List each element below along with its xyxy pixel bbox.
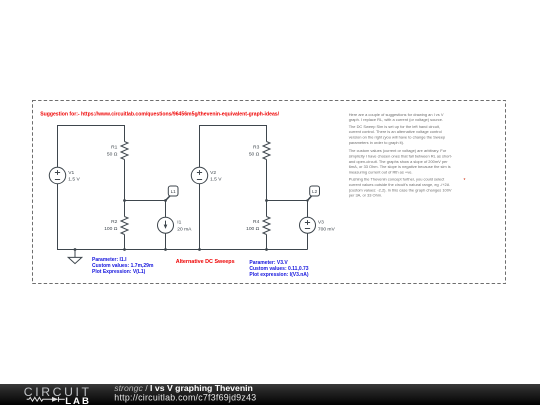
svg-text:current control. There is an a: current control. There is an alternative… [349,129,442,134]
svg-text:*: * [464,178,466,184]
svg-text:version on the right (you will: version on the right (you will have to c… [349,135,446,140]
svg-text:20 mA: 20 mA [177,226,192,232]
svg-text:R4: R4 [253,219,260,225]
svg-text:R2: R2 [111,219,118,225]
svg-text:parameters in order to graph i: parameters in order to graph it). [349,140,404,145]
svg-text:1.5 V: 1.5 V [210,177,222,183]
svg-text:Parameter: V3.V: Parameter: V3.V [249,260,288,266]
svg-text:per 3A, or 33 Ohm.: per 3A, or 33 Ohm. [349,193,382,198]
svg-text:L1: L1 [171,189,177,194]
svg-text:V2: V2 [210,170,216,176]
svg-text:(custom values: -2,2). In this: (custom values: -2,2). In this case the … [349,187,452,192]
svg-text:100 Ω: 100 Ω [246,226,260,232]
svg-text:R3: R3 [253,145,260,151]
svg-text:Suggestion for:- https://www.c: Suggestion for:- https://www.circuitlab.… [40,111,279,117]
svg-text:Pushing the Thevenin concept f: Pushing the Thevenin concept further, yo… [349,177,445,182]
svg-text:Alternative DC Sweeps: Alternative DC Sweeps [176,259,235,265]
svg-text:V3: V3 [318,220,324,226]
svg-text:The custom values (current or: The custom values (current or voltage) a… [349,148,447,153]
svg-text:measuring current out of Rth a: measuring current out of Rth as +ve. [349,170,413,175]
svg-text:Here are a couple of suggestio: Here are a couple of suggestions for dra… [349,112,444,117]
svg-text:and open-circuit. The graphs s: and open-circuit. The graphs show a slop… [349,159,449,164]
svg-text:V1: V1 [68,170,74,176]
svg-text:6mA, or 33 Ohm. The slope is n: 6mA, or 33 Ohm. The slope is negative be… [349,164,451,169]
svg-text:I1: I1 [177,220,181,226]
svg-text:1.5 V: 1.5 V [68,177,80,183]
svg-text:LAB: LAB [65,396,91,405]
svg-text:50 Ω: 50 Ω [107,151,118,157]
svg-text:50 Ω: 50 Ω [249,151,260,157]
svg-text:R1: R1 [111,145,118,151]
svg-text:The DC Sweep Sim is set up for: The DC Sweep Sim is set up for the left … [349,124,440,129]
svg-text:Plot Expression: V(L1): Plot Expression: V(L1) [92,269,146,275]
svg-text:current values outside the cir: current values outside the circuit's nat… [349,182,450,187]
svg-text:100 Ω: 100 Ω [104,226,118,232]
svg-text:http://circuitlab.com/c7f3f69j: http://circuitlab.com/c7f3f69jd9z43 [114,392,256,402]
svg-text:simplicity I have chosen ones: simplicity I have chosen ones that fall … [349,153,453,158]
svg-text:Plot expression: I(V3.nA): Plot expression: I(V3.nA) [249,272,309,278]
svg-text:700 mV: 700 mV [318,226,336,232]
svg-text:L2: L2 [312,189,318,194]
svg-text:graph. I replace RL, with a cu: graph. I replace RL, with a current (or … [349,117,443,122]
